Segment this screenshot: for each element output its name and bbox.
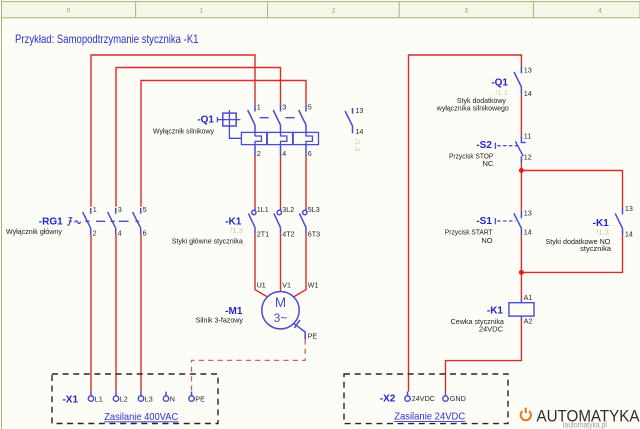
svg-text:2: 2 (257, 149, 261, 158)
contactor aux hold contact -K1 13-14 (546, 204, 633, 253)
terminal strip -X2 Zasilanie 24VDC (344, 374, 508, 424)
svg-text:2: 2 (332, 8, 336, 15)
svg-text:11: 11 (524, 131, 531, 140)
Q1 auxiliary contact 13-14 (mirror) (345, 106, 363, 152)
motor breaker -Q1 (153, 103, 363, 158)
RG1 pole 3-4 (108, 205, 122, 237)
svg-text:/1.3: /1.3 (353, 139, 362, 152)
RG1 pole 5-6 (133, 205, 147, 237)
wire -Q1:14 to -S2:11 (520, 94, 522, 135)
terminal N (163, 392, 175, 404)
Q1 thermal overload box (241, 132, 318, 156)
svg-text:GND: GND (450, 394, 466, 403)
svg-text:5L3: 5L3 (308, 205, 320, 214)
motor -M1 (196, 281, 319, 341)
svg-text:5: 5 (143, 205, 147, 214)
wire 24VDC supply: X2.24VDC up and over to -Q1:13 (409, 55, 522, 392)
START pushbutton -S1 (NO) (445, 208, 532, 245)
wire -S1:14 to coil A1 (520, 236, 522, 299)
wire branch junction to -K1:13 (hold contact) (521, 171, 622, 208)
svg-text:6T3: 6T3 (308, 229, 320, 238)
K1 pole 5L3-6T3 (299, 205, 320, 238)
svg-text:13: 13 (524, 208, 532, 217)
svg-text:L3: L3 (145, 394, 153, 403)
contactor coil -K1 (451, 293, 534, 334)
svg-text:14: 14 (524, 89, 532, 98)
terminal GND (443, 393, 466, 403)
svg-text:13: 13 (625, 204, 633, 213)
svg-text:Silnik 3-fazowy: Silnik 3-fazowy (196, 315, 244, 324)
wire coil A2 to X2 terminal GND (446, 321, 522, 393)
svg-text:-S2: -S2 (476, 140, 492, 151)
svg-text:W1: W1 (308, 281, 319, 290)
svg-text:NO: NO (481, 236, 492, 245)
svg-text:4: 4 (118, 228, 122, 237)
svg-text:14: 14 (355, 127, 363, 136)
wire -Q1:6 to -K1:5L3 (305, 156, 307, 208)
svg-text:13: 13 (355, 106, 363, 115)
terminal L1 (88, 392, 103, 404)
svg-text:4: 4 (598, 8, 602, 15)
junction node above -S1 (519, 168, 524, 173)
svg-text:/1.3: /1.3 (230, 226, 243, 235)
wire -Q1:2 to -K1:1L1 (254, 156, 256, 208)
svg-text:wyłącznika silnikowego: wyłącznika silnikowego (436, 104, 509, 113)
svg-text:13: 13 (524, 65, 532, 74)
terminal L3 (138, 392, 153, 404)
svg-text:3~: 3~ (274, 311, 288, 325)
svg-text:U1: U1 (257, 281, 266, 290)
terminal strip -X1 Zasilanie 400VAC (52, 374, 218, 424)
wire L1 feed: X1.L1 riser to -Q1 pin 1 (91, 55, 255, 207)
Q1 pole 3-4 (273, 103, 286, 158)
svg-text:NC: NC (482, 159, 493, 168)
svg-text:5: 5 (308, 103, 312, 112)
svg-text:3: 3 (465, 8, 469, 15)
svg-text:-Q1: -Q1 (491, 78, 508, 89)
wire -K1:4T2 to motor V1 (280, 234, 282, 292)
svg-text:1L1: 1L1 (257, 205, 269, 214)
svg-text:12: 12 (524, 152, 532, 161)
svg-text:4: 4 (282, 149, 286, 158)
Q1 linkage dashes (260, 117, 295, 119)
terminal L2 (113, 392, 128, 404)
terminal PE (189, 392, 205, 404)
svg-text:PE: PE (308, 331, 318, 340)
svg-text:A1: A1 (524, 293, 533, 302)
K1 pole 3L2-4T2 (274, 205, 295, 238)
terminal 24VDC (405, 392, 435, 404)
junction node below -S1 (519, 270, 524, 275)
svg-text:4T2: 4T2 (282, 229, 294, 238)
wire -K1:14 back to junction 2 (521, 236, 622, 273)
wire -RG1:6 to X1 terminal L3 (140, 235, 142, 392)
svg-text:N: N (170, 394, 175, 403)
svg-text:3: 3 (282, 103, 286, 112)
svg-text:1: 1 (200, 8, 204, 15)
svg-text:PE: PE (195, 394, 205, 403)
wire -RG1:4 to X1 terminal L2 (115, 235, 117, 392)
Q1 pole 1-2 (248, 103, 261, 158)
svg-text:14: 14 (524, 227, 532, 236)
svg-text:/1.3: /1.3 (596, 227, 609, 236)
svg-text:24VDC: 24VDC (412, 394, 435, 403)
motor PE tap (294, 324, 305, 340)
contactor main contacts -K1 (172, 205, 320, 245)
svg-text:-Q1: -Q1 (197, 114, 214, 125)
svg-text:-RG1: -RG1 (39, 216, 63, 227)
RG1 handle symbol F~ (67, 218, 72, 226)
Q1 operator square with cross (217, 110, 241, 138)
svg-text:Wyłącznik główny: Wyłącznik główny (6, 227, 62, 236)
svg-text:A2: A2 (524, 317, 533, 326)
svg-text:M: M (275, 295, 286, 310)
wire -Q1:4 to -K1:3L2 (280, 156, 282, 208)
RG1 pole 1-2 (83, 205, 97, 237)
svg-text:3L2: 3L2 (282, 205, 294, 214)
svg-text:6: 6 (143, 228, 147, 237)
RG1 linkage dashes (85, 220, 139, 222)
wire -K1:6T3 to motor W1 (294, 234, 306, 297)
svg-text:iautomatyka.pl: iautomatyka.pl (563, 421, 607, 429)
svg-text:1: 1 (257, 103, 261, 112)
svg-text:Zasilanie 24VDC: Zasilanie 24VDC (394, 411, 465, 423)
wire -S2:12 to -S1:13 via junction (520, 163, 522, 211)
Q1 pole 5-6 (299, 103, 312, 158)
svg-text:14: 14 (625, 230, 633, 239)
wire PE dashed: motor PE to X1 terminal PE (192, 339, 306, 391)
wire L3 feed: X1.L3 riser to -Q1 pin 5 (141, 81, 306, 207)
svg-text:stycznika: stycznika (580, 244, 612, 253)
wire -K1:2T1 to motor U1 (255, 234, 267, 297)
svg-text:1: 1 (93, 205, 97, 214)
svg-text:V1: V1 (282, 281, 291, 290)
svg-text:Styki główne stycznika: Styki główne stycznika (172, 236, 244, 245)
svg-text:-K1: -K1 (487, 305, 504, 316)
svg-text:Przykład: Samopodtrzymanie sty: Przykład: Samopodtrzymanie stycznika -K1 (15, 32, 199, 46)
wire -RG1:2 to X1 terminal L1 (90, 235, 92, 392)
breaker aux contact -Q1 13-14 (control circuit) (436, 65, 532, 112)
svg-text:-X1: -X1 (62, 394, 78, 405)
STOP pushbutton -S2 (NC) (449, 131, 532, 168)
svg-text:L2: L2 (120, 394, 128, 403)
K1 pole 1L1-2T1 (248, 205, 269, 238)
svg-text:2T1: 2T1 (257, 229, 269, 238)
svg-text:0: 0 (67, 8, 71, 15)
svg-text:6: 6 (308, 149, 312, 158)
svg-text:Wyłącznik silnikowy: Wyłącznik silnikowy (153, 126, 214, 135)
svg-text:-X2: -X2 (380, 394, 396, 405)
svg-text:Zasilanie 400VAC: Zasilanie 400VAC (104, 411, 178, 423)
wire L2 feed: X1.L2 riser to -Q1 pin 3 (116, 68, 281, 207)
main switch -RG1 (6, 205, 147, 237)
svg-text:3: 3 (118, 205, 122, 214)
svg-text:-S1: -S1 (476, 216, 492, 227)
svg-text:L1: L1 (95, 394, 103, 403)
AUTOMATYKA logo (521, 407, 640, 429)
svg-text:2: 2 (93, 228, 97, 237)
svg-text:24VDC: 24VDC (479, 324, 504, 333)
